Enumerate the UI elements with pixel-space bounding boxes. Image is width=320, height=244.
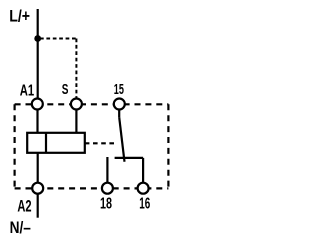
wire: down to terminal 16 (vertical): [142, 158, 144, 182]
svg-text:A1: A1: [20, 82, 34, 99]
timer coil box: [27, 133, 85, 153]
wire: open contact stub above terminal 18: [106, 157, 108, 182]
wire: supply L/+ down to terminal A1: [37, 9, 39, 98]
wire: S to coil top: [75, 110, 77, 133]
enclosure dashed box: top edge: [15, 103, 169, 105]
enclosure dashed box: right edge: [167, 104, 169, 188]
mechanical linkage dashed line from coil to contact lever: [85, 142, 117, 144]
terminal 15 circle: [114, 99, 125, 110]
terminal 16 circle: [138, 183, 149, 194]
enclosure dashed box: bottom edge: [15, 187, 169, 189]
contact lever (15 common): [119, 117, 124, 162]
wire: stub below terminal 15: [118, 110, 120, 117]
wire: A1 to coil top: [36, 110, 38, 133]
wire: coil bottom to A2: [37, 153, 39, 182]
svg-text:L/+: L/+: [9, 7, 30, 26]
terminal 18 circle: [102, 183, 113, 194]
junction dot on supply wire: [34, 35, 41, 42]
svg-text:N/–: N/–: [10, 218, 31, 237]
svg-text:A2: A2: [17, 197, 31, 216]
svg-text:18: 18: [100, 196, 112, 213]
wire: A2 down to N/-: [37, 194, 39, 217]
wire: dashed branch from junction to terminal S (horizontal): [40, 38, 77, 40]
enclosure dashed box: left edge: [14, 104, 16, 188]
timer coil box divider: [45, 133, 47, 153]
terminal A2 circle: [32, 183, 43, 194]
svg-text:S: S: [62, 81, 69, 98]
terminal S circle: [71, 99, 82, 110]
wire: contact bar to terminal 16 (horizontal): [115, 157, 144, 159]
terminal A1 circle: [32, 99, 43, 110]
svg-text:15: 15: [114, 81, 124, 98]
wire: dashed branch from junction to terminal S (vertical): [75, 39, 77, 99]
svg-text:16: 16: [139, 196, 150, 213]
